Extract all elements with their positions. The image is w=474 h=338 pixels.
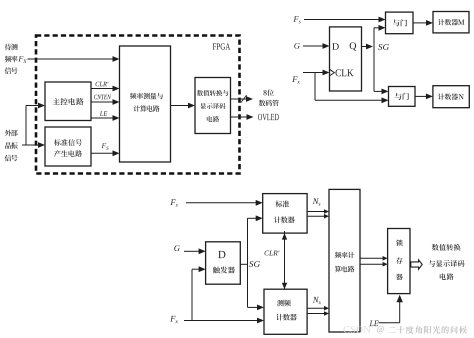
wire SG to 测频计数器 [248, 306, 259, 308]
wire AND2 to counter N [415, 95, 427, 97]
block 计数器M [433, 12, 469, 33]
label FPGA [213, 43, 216, 49]
label OVLED [258, 114, 262, 120]
wire CLR' 主控电路 to 计算电路 [91, 88, 114, 90]
bus Nx to 频率计算电路 [307, 307, 325, 309]
wire SG from D触发器 [240, 263, 248, 265]
wire SG to 标准计数器 [248, 217, 257, 219]
wire output bus to 8位数码管 [231, 98, 248, 100]
flip-flop U1 D-FF box [330, 27, 362, 91]
wire LE [91, 117, 114, 119]
wire Fx branch to AND gate 2 [314, 73, 316, 101]
bus slash mark [241, 95, 247, 102]
wire LE to 锁存器 [379, 322, 400, 324]
label Fs (bottom) [170, 199, 175, 205]
label Nx [313, 297, 319, 303]
bus Ns to 频率计算电路 [307, 211, 325, 213]
bus 频率计算电路 to 锁存器 [360, 257, 384, 259]
wire SG to AND2 [374, 90, 383, 92]
block 测频计数器 [264, 289, 307, 334]
flip-flop D触发器 [206, 242, 241, 284]
label Fx (top-right) [292, 76, 297, 82]
watermark CSDN [343, 326, 349, 333]
watermark @二十度角阳光的问候 [377, 326, 467, 334]
label G [294, 43, 299, 49]
label Ns [313, 198, 319, 204]
block 标准信号产生电路 [45, 127, 91, 166]
FPGA dashed boundary box [36, 36, 240, 174]
wire branch up to 主控电路 [25, 106, 27, 146]
wire G to D input [303, 45, 324, 47]
label CLR' [96, 82, 100, 87]
node SG vertical [373, 28, 375, 92]
block 频率测量与计算电路 [120, 46, 171, 162]
wire Fx to 测频计数器 [184, 320, 258, 322]
open block arrow 锁存器 output [411, 260, 422, 269]
wire 计算电路 to 数值转换 [171, 105, 190, 107]
block 锁存器 [388, 229, 410, 294]
wire AND1 to counter M [413, 22, 427, 24]
block 数值转换与显示译码电路 [195, 78, 231, 134]
node label 数值转换与显示译码电路 [429, 244, 465, 280]
gate AND2 与门 [389, 87, 416, 107]
node label: 外部晶振信号 (ext crystal) [5, 130, 18, 162]
block 主控电路 [45, 82, 91, 121]
gate AND1 与门 [386, 12, 414, 34]
label Fs (top-right) [293, 16, 298, 22]
label CLR' (bottom) [264, 251, 269, 256]
block 标准计数器 [263, 194, 307, 234]
label G (bottom) [174, 245, 179, 251]
pin label CLK [335, 69, 340, 76]
label SG [378, 44, 382, 50]
label LE [100, 111, 103, 115]
label SG (bottom) [249, 261, 253, 267]
block 计数器N [433, 86, 469, 108]
wire 外部晶振信号 to 标准信号产生电路 [22, 144, 26, 146]
pin label Q [350, 42, 357, 50]
wire Fx to CLK [303, 72, 324, 74]
wire G to D触发器 [184, 250, 200, 252]
wire Fs to 标准计数器 [186, 202, 257, 204]
label 8位数码管 [259, 89, 279, 106]
node SG vertical (bottom) [247, 218, 249, 307]
node label: 待测频率信号 (input signal name) [5, 44, 18, 74]
wire Q output [362, 46, 368, 48]
node Fx input label [18, 56, 23, 61]
label Fs [101, 143, 106, 148]
label CNTEN [94, 95, 97, 100]
wire CNTEN [91, 101, 114, 103]
label LE (bottom) [369, 321, 373, 327]
wire Fx branch to D触发器 clk [191, 269, 193, 320]
pin label D [332, 43, 339, 50]
label Fx (bottom) [170, 316, 175, 322]
wire Fs 标准信号产生电路 to 计算电路 [91, 152, 114, 154]
wire CLR' double-headed vertical [284, 231, 286, 292]
wire output OVLED [231, 116, 248, 118]
wire Fx into 频率测量与计算电路 [28, 58, 114, 60]
block 频率计算电路 [329, 189, 360, 332]
wire Fs to AND gate 1 [304, 19, 380, 21]
wire SG to AND1 [374, 27, 380, 29]
